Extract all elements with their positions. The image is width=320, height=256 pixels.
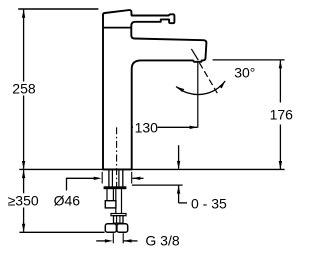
dim 0-35 lower reference line [132,184,183,186]
svg-text:130: 130 [135,119,159,135]
dim O46 arrow right-pointing [94,177,102,180]
G3/8 extension tick right [122,233,124,243]
aerator tick [191,49,198,60]
dim 176 line lower [279,125,281,169]
dim 176 top reference line [213,59,285,61]
stud left wall [106,189,108,201]
dim 176 arrow up [279,60,282,68]
connector ribbed body [114,216,124,224]
svg-text:258: 258 [12,80,36,96]
dim 0-35 arrow down to deck [177,161,180,169]
dim 258 line upper [23,10,25,82]
dim 0-35 arrow up [177,185,180,193]
dim 130 line right [158,126,198,128]
hose right (above flange) [118,169,120,186]
dim 0-35 upper arrow line [178,145,180,168]
connector rib line 2 [119,216,121,224]
svg-text:Ø46: Ø46 [54,192,81,208]
G3/8 arrow right-pointing [105,239,113,242]
dim >=350 arrow down [22,224,25,232]
30 degree dashed line [199,63,217,93]
dim 258 arrow up [22,10,25,18]
dim 130 line left [117,126,133,128]
dim 258 arrow down [22,161,25,169]
G3/8 dimension line left [96,240,109,242]
svg-text:G 3/8: G 3/8 [145,233,179,249]
svg-text:30°: 30° [234,65,255,81]
hex nut right lobe [117,224,128,233]
connector collar [111,214,126,216]
dim O46 arrow left-pointing [132,177,140,180]
shank right wall [122,169,124,186]
rotation arc arrowhead left [176,87,184,93]
deck line [19,168,284,170]
hex nut left lobe [105,224,116,233]
supply hose right wall [121,189,123,213]
dim 0-35 lower arrow tail [178,186,180,203]
dim O46 line left [66,177,98,179]
mounting flange [104,186,127,189]
G3/8 dimension line right [124,240,138,242]
dim 176 line upper [279,60,281,102]
hose left (above flange) [111,169,113,186]
svg-text:0 - 35: 0 - 35 [191,196,227,212]
dim 176 arrow down [279,161,282,169]
G3/8 extension tick left [112,233,114,243]
handle joint line [104,27,131,29]
center line (dash-dot axis) [116,127,118,191]
faucet outline [103,10,206,169]
rotation arc arrowhead right [219,81,225,88]
dim 258 line lower [23,96,25,169]
svg-text:176: 176 [270,107,294,123]
rotation arc [176,81,225,95]
dim O46 line right [132,177,143,179]
svg-text:≥350: ≥350 [8,192,39,208]
stud nut [105,201,116,208]
dim 130 arrow left-pointing [117,126,125,129]
stud right wall [112,189,114,201]
dim 0-35 elbow [179,202,187,204]
dim 258 top extension line [18,8,98,10]
dim O46 extension tick right [131,172,133,184]
dim >=350 line lower [23,208,25,232]
G3/8 arrow left-pointing [124,239,132,242]
supply hose left wall [115,189,117,213]
>=350 bottom reference line [19,231,104,233]
connector rib line 1 [116,216,118,224]
dim O46 leader drop [66,178,68,191]
dim >=350 line upper [23,170,25,193]
dim O46 extension tick left [101,172,103,184]
spout outlet drop line [197,62,199,128]
dim >=350 arrow up [22,170,25,178]
dim 130 arrow right-pointing [190,126,198,129]
shank left wall [108,169,110,186]
